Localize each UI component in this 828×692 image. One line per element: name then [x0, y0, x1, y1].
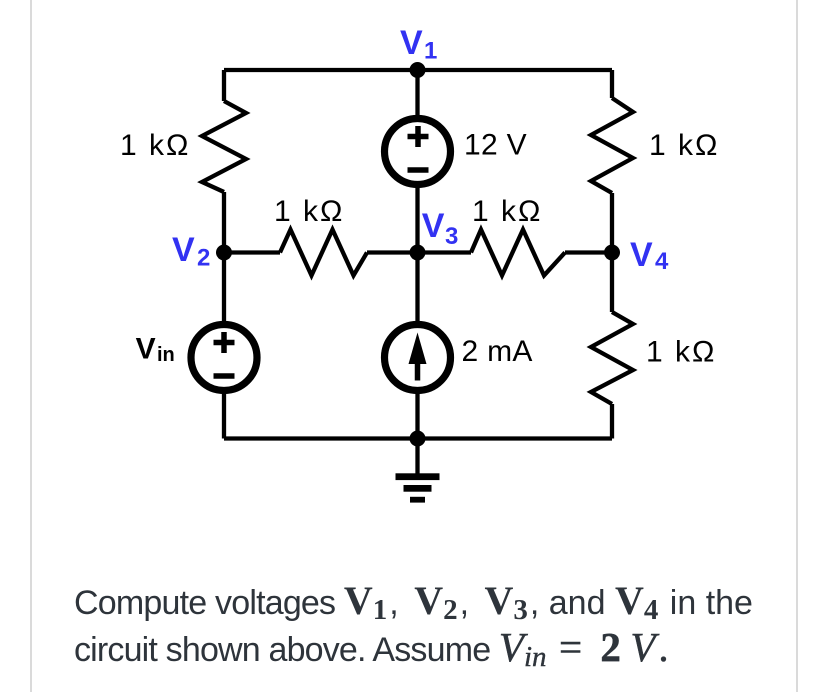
svg-text:12 V: 12 V	[464, 129, 527, 162]
svg-text:2: 2	[197, 245, 210, 272]
svg-text:1 kΩ: 1 kΩ	[120, 129, 190, 162]
svg-text:V: V	[172, 231, 195, 269]
svg-text:1: 1	[424, 38, 437, 65]
svg-text:3: 3	[445, 223, 458, 250]
svg-text:2 mA: 2 mA	[462, 335, 533, 368]
svg-text:V: V	[136, 333, 156, 366]
svg-text:in: in	[157, 344, 175, 366]
svg-text:1 kΩ: 1 kΩ	[646, 336, 716, 369]
svg-text:V: V	[630, 236, 653, 274]
svg-text:V: V	[400, 24, 423, 62]
svg-text:V: V	[422, 207, 445, 245]
svg-text:4: 4	[655, 248, 669, 275]
svg-text:1 kΩ: 1 kΩ	[274, 195, 344, 228]
svg-text:1 kΩ: 1 kΩ	[649, 129, 719, 162]
svg-text:1 kΩ: 1 kΩ	[472, 195, 542, 228]
